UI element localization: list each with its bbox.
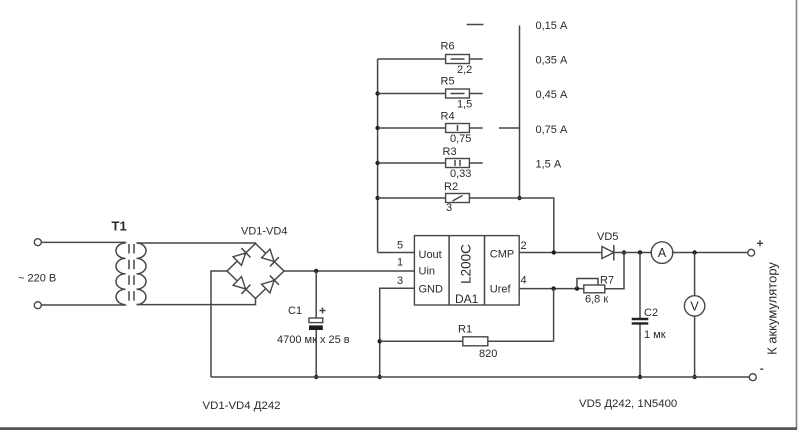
- svg-text:~ 220 В: ~ 220 В: [18, 273, 56, 285]
- wire: VD5 cathode to ammeter: [614, 252, 652, 254]
- junction: GND wire at bottom rail: [378, 375, 382, 379]
- junction: bus at R3: [375, 161, 379, 165]
- wire: bridge right corner to IC pin 1 (Uin): [284, 270, 414, 272]
- svg-text:0,45 А: 0,45 А: [536, 89, 568, 101]
- wire: input top to T1 primary: [41, 241, 125, 244]
- wire: pin 2 (CMP) to VD5 anode: [519, 252, 602, 254]
- wire: left bus of resistor ladder: [377, 59, 379, 253]
- junction: C2 top: [638, 250, 642, 254]
- output terminal minus: [749, 374, 756, 381]
- svg-text:VD1-VD4: VD1-VD4: [241, 226, 287, 238]
- svg-text:R1: R1: [458, 324, 472, 336]
- resistor R5: [378, 89, 483, 98]
- trimmer resistor R7: [577, 279, 605, 293]
- wire: C2 bottom lead: [639, 325, 641, 378]
- svg-text:4: 4: [521, 275, 527, 287]
- svg-text:R2: R2: [444, 181, 458, 193]
- wire: C1 bottom lead: [315, 330, 317, 377]
- svg-text:0,75 А: 0,75 А: [536, 124, 568, 136]
- wire: pin 3 (GND) to bottom rail: [380, 288, 415, 377]
- svg-text:0,15 А: 0,15 А: [536, 20, 568, 32]
- transformer T1 primary winding: [116, 243, 126, 305]
- input terminal top: [34, 239, 41, 246]
- svg-text:0,75: 0,75: [450, 133, 471, 145]
- output terminal plus: [748, 249, 755, 256]
- diode VD1 (bridge top-left): [233, 248, 251, 266]
- wire: voltmeter bottom lead: [694, 316, 696, 377]
- svg-text:К аккумулятору: К аккумулятору: [765, 262, 780, 355]
- capacitor C2 plates: [632, 319, 649, 323]
- junction: bus at R5: [375, 91, 379, 95]
- capacitor C1 bottom plate: [309, 325, 323, 330]
- voltmeter PV1: [684, 296, 704, 316]
- wire: bottom rail: [211, 376, 749, 378]
- ammeter PA1: [651, 242, 673, 264]
- resistor R4: [378, 124, 483, 133]
- svg-text:T1: T1: [112, 219, 127, 234]
- minus sign at output: [760, 368, 763, 370]
- svg-text:VD5: VD5: [597, 231, 618, 243]
- svg-text:4700 мк x 25 в: 4700 мк x 25 в: [277, 334, 350, 346]
- wire: bus to pin 5 (Uout): [378, 252, 415, 254]
- capacitor C1 top plate: [309, 318, 323, 323]
- svg-text:R5: R5: [441, 76, 455, 88]
- junction: Uref and R1 link: [551, 286, 555, 290]
- svg-text:2,2: 2,2: [457, 64, 472, 76]
- svg-text:DA1: DA1: [455, 292, 479, 306]
- svg-text:1: 1: [397, 257, 403, 269]
- op-amp regulator DA1 L200C body: [414, 236, 519, 305]
- svg-text:CMP: CMP: [490, 249, 514, 261]
- wire: R2 to CMP link: [469, 198, 553, 253]
- junction: CMP and R2 link: [552, 250, 556, 254]
- svg-text:R6: R6: [441, 41, 455, 53]
- resistor R3: [378, 159, 483, 168]
- junction: bus at R2: [375, 196, 379, 200]
- junction: C1 bottom: [314, 375, 318, 379]
- junction: C2 bottom: [638, 375, 642, 379]
- wire: input bottom to T1 primary: [41, 304, 125, 306]
- svg-text:C2: C2: [644, 307, 658, 319]
- resistor R6: [378, 55, 483, 64]
- diode VD4 (bridge bottom-right): [261, 276, 279, 294]
- wire: R1 to Uref link: [553, 289, 555, 342]
- wire: bridge left corner to bottom rail: [211, 271, 227, 377]
- capacitor C1 plus sign: [320, 308, 326, 314]
- svg-text:V: V: [690, 300, 699, 314]
- svg-text:5: 5: [397, 240, 403, 252]
- svg-text:1 мк: 1 мк: [644, 329, 666, 341]
- svg-text:R4: R4: [441, 111, 455, 123]
- svg-text:1,5: 1,5: [457, 99, 472, 111]
- wire: voltmeter top lead: [694, 253, 696, 296]
- svg-text:Uin: Uin: [419, 266, 436, 278]
- svg-text:0,33: 0,33: [450, 168, 471, 180]
- svg-text:Uref: Uref: [490, 284, 512, 296]
- junction: common pole to R2 wire: [517, 196, 521, 200]
- svg-text:L200C: L200C: [459, 244, 474, 284]
- transformer T1 secondary winding: [137, 243, 147, 305]
- svg-text:Uout: Uout: [419, 249, 442, 261]
- junction: C1 top: [314, 269, 318, 273]
- svg-text:GND: GND: [419, 284, 444, 296]
- wire: ammeter to plus terminal: [672, 252, 748, 254]
- junction: R7 link at top wire: [622, 250, 626, 254]
- switch wiper contact at R4: [499, 127, 520, 129]
- svg-text:2: 2: [521, 240, 527, 252]
- wire: pin 4 (Uref) to R7: [519, 288, 584, 290]
- bridge diamond wires: [227, 244, 284, 299]
- svg-text:R3: R3: [443, 146, 457, 158]
- wire: R7 to output link: [605, 253, 624, 289]
- svg-text:1,5 А: 1,5 А: [536, 159, 562, 171]
- svg-text:6,8 к: 6,8 к: [585, 294, 608, 306]
- wire: switch common pole: [519, 26, 521, 199]
- svg-text:C1: C1: [288, 305, 302, 317]
- svg-text:A: A: [658, 246, 667, 260]
- wire: C1 top lead: [315, 271, 317, 318]
- svg-text:820: 820: [479, 348, 497, 360]
- junction: bus at R4: [375, 126, 379, 130]
- wire: T1 secondary top to bridge top: [137, 242, 256, 245]
- diode VD5: [602, 245, 614, 261]
- svg-text:VD1-VD4 Д242: VD1-VD4 Д242: [203, 400, 281, 412]
- svg-text:0,35 А: 0,35 А: [536, 55, 568, 67]
- wire: C2 top lead: [639, 253, 641, 319]
- diode VD3 (bridge bottom-left): [233, 276, 251, 294]
- svg-text:3: 3: [397, 275, 403, 287]
- transformer T1 core: [129, 244, 134, 303]
- switch contact 0,15 A: [467, 24, 484, 26]
- junction: Uref and R7 wiper: [575, 286, 579, 290]
- wire: T1 secondary bottom to bridge bottom: [137, 299, 256, 305]
- junction: GND wire at R1: [378, 339, 382, 343]
- diode VD2 (bridge top-right): [261, 249, 279, 267]
- svg-text:VD5 Д242, 1N5400: VD5 Д242, 1N5400: [579, 398, 677, 410]
- resistor R2: [378, 194, 470, 203]
- junction: voltmeter bottom: [692, 375, 696, 379]
- junction: voltmeter top: [692, 250, 696, 254]
- svg-text:3: 3: [446, 202, 452, 214]
- input terminal bottom: [34, 302, 41, 309]
- resistor R1: [380, 337, 554, 346]
- plus sign at output: [757, 240, 763, 246]
